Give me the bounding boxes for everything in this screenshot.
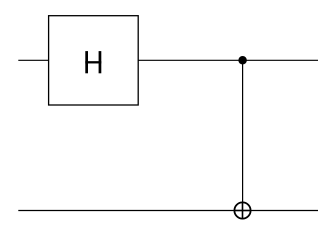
CNOT target cross horizontal xyxy=(234,210,252,212)
gate H box xyxy=(49,16,139,105)
CNOT control dot xyxy=(238,56,247,65)
wire q1 xyxy=(18,210,318,212)
CNOT target circle xyxy=(234,202,250,218)
wire q0 right segment xyxy=(138,59,318,61)
CNOT target cross vertical xyxy=(242,202,244,220)
gate H label xyxy=(85,51,101,73)
wire q0 left segment xyxy=(18,59,48,61)
wire CNOT vertical xyxy=(242,60,244,202)
